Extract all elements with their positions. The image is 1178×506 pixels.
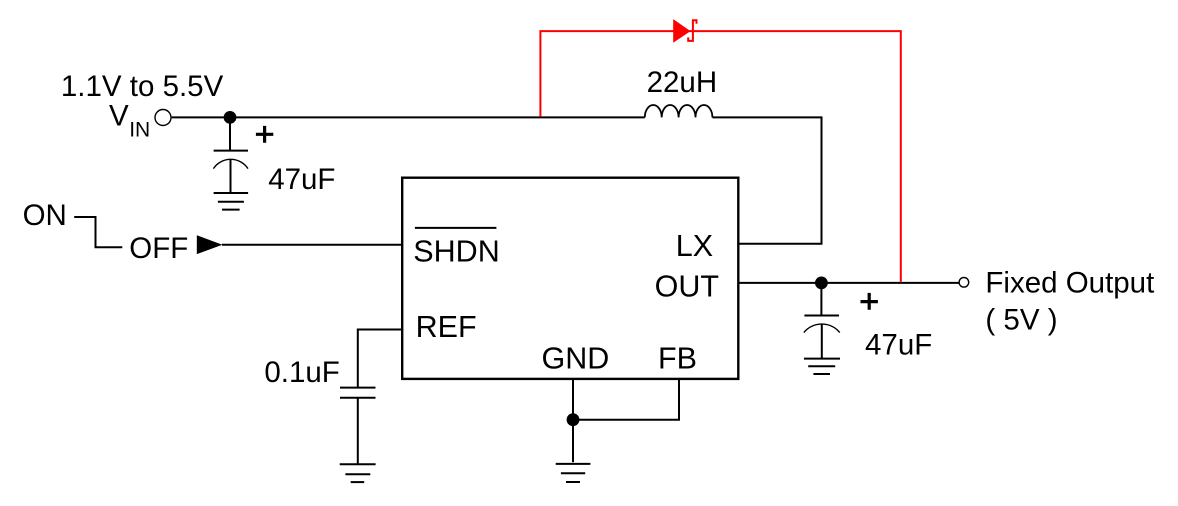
ground G4	[804, 359, 840, 374]
wire VIN to inductor	[172, 116, 645, 118]
svg-text:LX: LX	[676, 229, 713, 263]
wire red feed-forward net	[540, 31, 900, 282]
wire GND pin to ground	[572, 379, 574, 462]
svg-text:ON: ON	[23, 199, 67, 232]
svg-text:GND: GND	[542, 342, 610, 376]
svg-text:0.1uF: 0.1uF	[264, 356, 339, 389]
terminal VIN	[155, 110, 171, 126]
svg-text:22uH: 22uH	[647, 66, 718, 99]
ground G1	[214, 193, 249, 210]
wire OUT to output terminal	[739, 282, 959, 284]
capacitor C3 47uF polarized	[820, 283, 822, 316]
wire C1 lead	[229, 117, 231, 150]
capacitor C1 47uF polarized	[214, 150, 248, 152]
op-amp U1 IC box	[402, 178, 738, 379]
svg-text:47uF: 47uF	[865, 329, 932, 362]
svg-text:FB: FB	[658, 342, 697, 376]
ground G3	[556, 464, 591, 482]
arrow into SHDN	[197, 235, 223, 254]
svg-text:V: V	[109, 99, 129, 132]
svg-text:OFF: OFF	[129, 232, 188, 265]
svg-text:OUT: OUT	[655, 269, 719, 303]
svg-text:SHDN: SHDN	[413, 235, 499, 269]
diode D1 schottky	[673, 19, 690, 43]
svg-text:Fixed Output: Fixed Output	[985, 267, 1154, 300]
wire ON stub	[74, 217, 122, 247]
wire FB pin to junction	[573, 379, 679, 420]
svg-text:( 5V ): ( 5V )	[985, 304, 1057, 337]
node junction GND/FB	[567, 413, 580, 426]
terminal output	[959, 278, 969, 288]
svg-text:1.1V to 5.5V: 1.1V to 5.5V	[61, 70, 224, 103]
svg-text:IN: IN	[129, 118, 150, 141]
wire inductor to LX	[712, 117, 821, 243]
ground G2	[340, 464, 376, 482]
node VIN input label	[61, 70, 224, 142]
svg-text:REF: REF	[416, 310, 477, 344]
node junction at C3	[815, 277, 828, 290]
svg-text:47uF: 47uF	[268, 163, 335, 196]
wire arrow to SHDN pin	[222, 244, 401, 246]
wire REF pin	[358, 330, 401, 388]
node junction at C1	[224, 111, 237, 124]
